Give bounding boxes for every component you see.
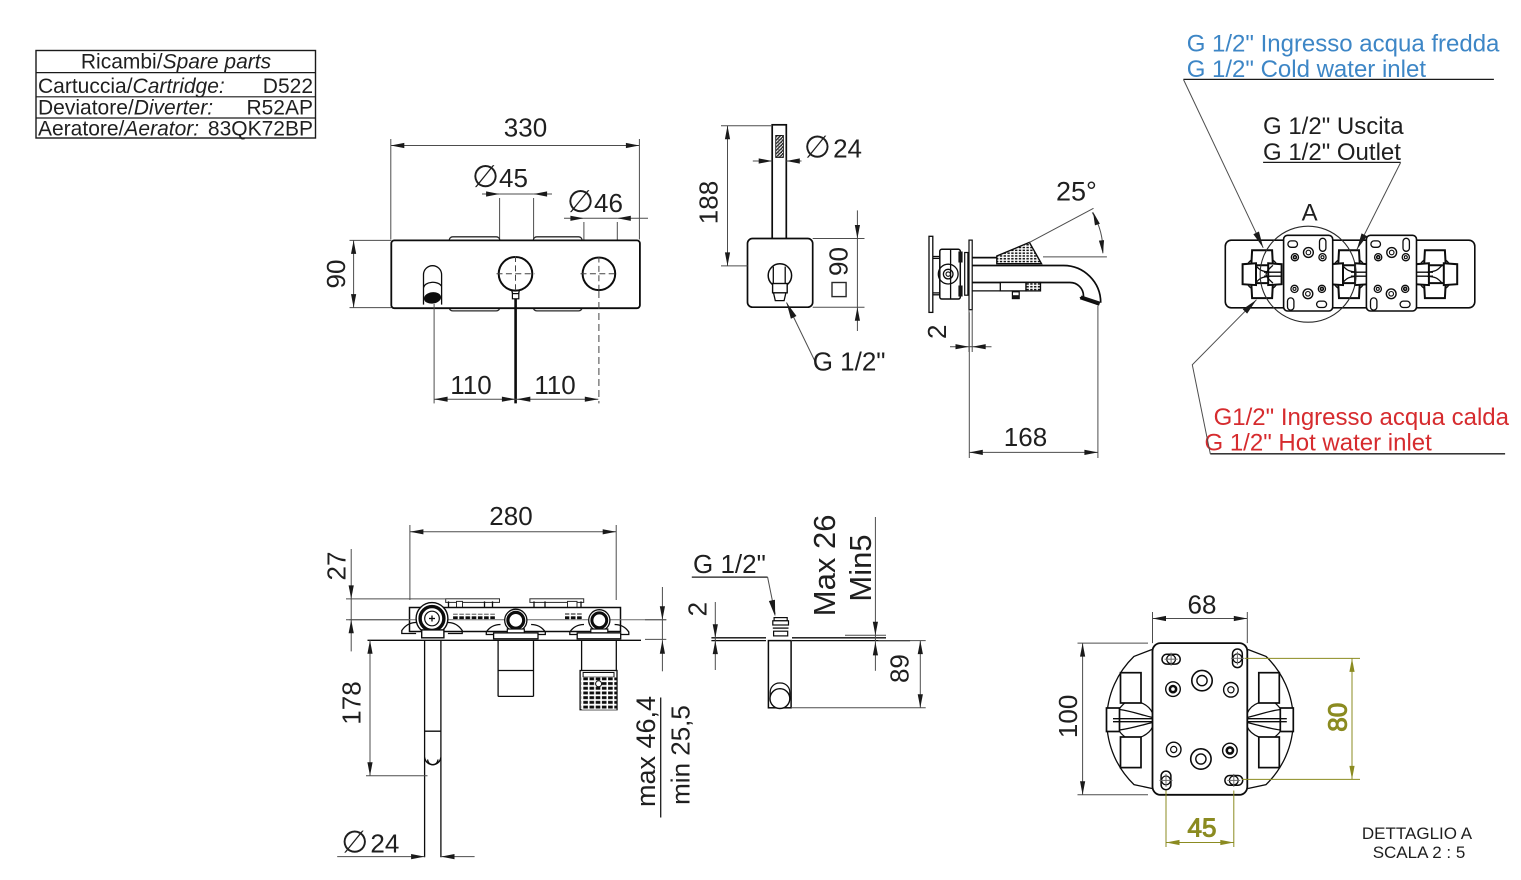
svg-text:Ricambi/Spare parts: Ricambi/Spare parts (81, 51, 272, 74)
cartridge circles (side) (938, 264, 958, 284)
svg-text:89: 89 (885, 654, 915, 683)
dim 280 extension lines (409, 525, 411, 600)
valve 3 (aerator outlet) (570, 610, 629, 639)
svg-text:80: 80 (1323, 703, 1353, 732)
wand lower section through holder (773, 267, 788, 301)
mounting tab behind plate (left) (449, 237, 500, 311)
svg-text:330: 330 (504, 113, 547, 143)
dim max 46,4 / min 25,5 (631, 587, 696, 818)
spout tip aerator (dark) (1080, 296, 1101, 306)
svg-text:25°: 25° (1056, 177, 1097, 207)
supply pipe below wall (425, 640, 441, 857)
svg-text:Min5: Min5 (843, 534, 878, 601)
svg-text:G 1/2" Ingresso acqua fredda: G 1/2" Ingresso acqua fredda (1187, 30, 1500, 57)
svg-text:G 1/2" Uscita: G 1/2" Uscita (1263, 113, 1404, 140)
spout centreline extension (433, 304, 435, 403)
svg-text:90: 90 (321, 260, 351, 289)
dim 168 (969, 306, 1098, 459)
dim 110 / 110 (434, 370, 598, 402)
svg-text:280: 280 (489, 501, 532, 531)
cross handle wings left (detail) (1107, 673, 1153, 768)
wand holder ring (768, 264, 791, 287)
leader G 1/2" (hand shower outlet) (784, 301, 886, 376)
dim 2 (wall finish) (683, 602, 718, 670)
svg-text:2: 2 (922, 325, 952, 339)
svg-text:∅ 24: ∅ 24 (804, 130, 862, 165)
small hole TR (1224, 683, 1239, 698)
svg-text:68: 68 (1188, 590, 1217, 620)
mounting plate rear 1 (1284, 235, 1333, 311)
spout (front) (423, 266, 441, 305)
svg-text:G 1/2" Hot water inlet: G 1/2" Hot water inlet (1205, 430, 1433, 457)
svg-text:min 25,5: min 25,5 (666, 705, 696, 805)
dim diameter 24 (pipe) (337, 825, 474, 860)
dim 330 (391, 113, 640, 149)
diverter tube below wall (498, 640, 533, 696)
svg-text:SCALA 2 : 5: SCALA 2 : 5 (1373, 843, 1466, 862)
svg-text:G 1/2": G 1/2" (693, 549, 766, 579)
G 1/2 threaded nipple (773, 618, 789, 636)
svg-text:DETTAGLIO A: DETTAGLIO A (1362, 824, 1473, 843)
table frame (36, 51, 316, 139)
svg-text:2: 2 (683, 602, 713, 616)
hand shower wall plate (748, 239, 813, 308)
mounting tab behind plate (right) (533, 237, 582, 311)
svg-text:A: A (1302, 200, 1318, 227)
dim 27 (322, 549, 447, 651)
dim 280 (410, 501, 616, 534)
valve body silhouette behind plate (right) (1248, 650, 1293, 789)
manifold bar (1225, 240, 1475, 308)
svg-text:168: 168 (1004, 422, 1047, 452)
valve 1 (cartridge) (402, 603, 462, 638)
svg-text:45: 45 (1188, 813, 1217, 843)
svg-text:Aeratore/Aerator:: Aeratore/Aerator: (38, 118, 199, 141)
cross handle wings right (detail) (1247, 673, 1293, 768)
spout tube (side) (972, 258, 1100, 303)
dim 25 deg (1029, 177, 1107, 257)
small hole BL (1166, 742, 1181, 757)
knob 2 (right, diameter 46) (581, 257, 618, 404)
svg-text:max 46,4: max 46,4 (631, 696, 661, 807)
dim 80 (olive) (1242, 658, 1360, 779)
svg-text:Cartuccia/Cartridge:: Cartuccia/Cartridge: (38, 75, 225, 98)
slot BL (1160, 771, 1173, 790)
dim 2 (escutcheon proud of wall) (922, 310, 992, 352)
finished wall line (bottom-left view) (368, 639, 642, 641)
dim 45 (olive) (1166, 791, 1234, 848)
leader G 1/2" (nipple) (692, 549, 778, 617)
slot BR (1225, 774, 1243, 787)
svg-text:83QK72BP: 83QK72BP (208, 118, 313, 141)
rough-in back plate (929, 236, 933, 312)
svg-text:27: 27 (322, 552, 352, 581)
dim diameter 45 (472, 159, 552, 258)
mounting plate (detail A) (1153, 643, 1248, 795)
knob 1 hose connection (512, 290, 520, 403)
dim 178 (337, 640, 428, 775)
dim 90 (left of plate) (321, 240, 391, 307)
dim square 90 (plate) (813, 210, 865, 331)
svg-text:178: 178 (337, 681, 367, 724)
label cold water inlet (blue) (1183, 30, 1500, 249)
small hole BR (1223, 743, 1238, 758)
svg-text:110: 110 (450, 370, 491, 400)
label hot water inlet (red) (1192, 298, 1509, 457)
diverter lower collar (1000, 283, 1040, 299)
dim Max 26 / Min5 (807, 515, 886, 671)
svg-text:100: 100 (1053, 695, 1083, 738)
svg-text:G 1/2": G 1/2" (813, 347, 886, 377)
centre hole top (1192, 670, 1212, 690)
cross handle rear left (1243, 250, 1282, 298)
svg-text:G1/2" Ingresso acqua calda: G1/2" Ingresso acqua calda (1214, 404, 1510, 431)
svg-text:Max 26: Max 26 (807, 515, 842, 617)
dim 89 (791, 641, 926, 708)
wall plate 330x90 (391, 240, 640, 308)
svg-text:∅46: ∅46 (567, 184, 623, 219)
svg-text:90: 90 (824, 247, 854, 276)
slot TR (1231, 649, 1244, 668)
svg-text:∅ 24: ∅ 24 (341, 825, 399, 860)
svg-text:Deviatore/Diverter:: Deviatore/Diverter: (38, 97, 213, 120)
mounting plate rear 2 (1366, 235, 1416, 311)
detail A circle (1260, 226, 1356, 322)
svg-text:110: 110 (534, 370, 575, 400)
valve 2 (diverter) (486, 609, 545, 639)
label outlet (black) (1263, 113, 1404, 251)
dim 188 (694, 126, 773, 266)
flange plate (965, 253, 968, 296)
manifold bar (bottom view) (410, 608, 621, 632)
escutcheon (wall cover) (969, 240, 972, 310)
cross handle rear middle (1330, 250, 1369, 298)
mounting screws (dark) (958, 252, 962, 263)
slot TL (1162, 653, 1180, 666)
plaster guard rails (446, 599, 584, 608)
diverter body (section) (768, 641, 791, 709)
svg-text:∅45: ∅45 (472, 159, 528, 194)
cross handle rear right (1416, 250, 1458, 298)
svg-text:188: 188 (694, 181, 724, 224)
finished wall double line (711, 638, 910, 641)
shower wand (772, 125, 786, 267)
dim 330 extension lines (390, 139, 392, 240)
aerator block below wall (580, 640, 617, 709)
centre plane line (349, 619, 666, 621)
connector stubs (933, 257, 940, 295)
valve body (side) (940, 249, 961, 299)
dim 100 (1053, 643, 1148, 795)
dim 68 (1153, 590, 1248, 644)
diverter knob knurled (25 deg) (997, 242, 1042, 263)
centre hole bottom (1191, 749, 1211, 769)
printed label strips on bar (453, 614, 495, 620)
valve body silhouette behind plate (left) (1107, 650, 1152, 789)
dim diameter 24 (wand) (753, 130, 862, 165)
dim diameter 46 (564, 184, 648, 256)
knob 1 (centre, diameter 45) (497, 256, 535, 292)
svg-text:D522: D522 (263, 75, 313, 98)
small hole TL (1166, 682, 1181, 697)
svg-text:R52AP: R52AP (246, 97, 313, 120)
detail title (1362, 824, 1473, 862)
